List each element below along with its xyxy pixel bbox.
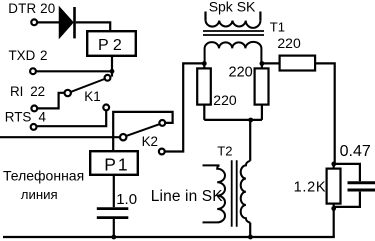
K1 lower contact bbox=[103, 105, 109, 111]
resistor R1 220 top lead bbox=[203, 64, 205, 69]
svg-text:линия: линия bbox=[21, 187, 58, 202]
svg-text:DTR 20: DTR 20 bbox=[8, 1, 55, 16]
wire capacitor C2 bottom to R4 bottom bbox=[334, 192, 360, 207]
K2 switch arm bbox=[126, 124, 159, 136]
svg-text:220: 220 bbox=[213, 92, 237, 108]
transformer T2 left winding bbox=[203, 165, 226, 222]
capacitor C2 0.47 top plate bbox=[348, 181, 375, 184]
capacitor C1 1.0 top plate bbox=[97, 207, 129, 210]
relay coil P2 box bbox=[87, 31, 136, 56]
svg-text:K1: K1 bbox=[84, 89, 100, 104]
wire P2 bottom lead bbox=[111, 56, 113, 71]
relay coil P1 box bbox=[90, 151, 138, 175]
transformer T1 upper winding lead left bbox=[204, 12, 206, 21]
terminal TXD 2 bbox=[30, 68, 36, 74]
wire phone line to K2 pivot bbox=[0, 136, 120, 138]
resistor R2 220 body bbox=[255, 68, 269, 104]
svg-text:1.0: 1.0 bbox=[116, 191, 137, 208]
svg-text:22: 22 bbox=[30, 84, 45, 99]
terminal DTR 20 bbox=[31, 19, 37, 25]
wire R4 bottom to ground rail bbox=[333, 208, 335, 237]
diode VD1 cathode bar bbox=[73, 7, 76, 38]
transformer T1 core line 1 bbox=[203, 30, 264, 32]
svg-text:P 2: P 2 bbox=[98, 37, 122, 54]
terminal RTS 4 bbox=[31, 124, 37, 130]
wire TXD to junction bbox=[36, 70, 112, 72]
transformer T1 upper winding bbox=[206, 21, 261, 28]
svg-text:RI: RI bbox=[10, 84, 23, 99]
junction node T1 left / R1 bbox=[202, 61, 207, 66]
wire C1 to bottom rail bbox=[113, 219, 115, 237]
wire diode to P2 top bbox=[76, 22, 111, 31]
svg-text:220: 220 bbox=[229, 65, 253, 81]
junction node TXD/P2 bbox=[110, 69, 115, 74]
K2 pivot contact bbox=[120, 134, 126, 140]
junction node R4 bottom bbox=[331, 206, 336, 211]
wire R3 to right riser bbox=[315, 63, 335, 163]
svg-text:0.47: 0.47 bbox=[340, 143, 371, 160]
junction node rail / T2 bbox=[248, 118, 253, 123]
transformer T1 core line 2 bbox=[203, 34, 264, 36]
resistor R4 1.2K body bbox=[327, 169, 341, 204]
K2 upper contact bbox=[159, 120, 165, 126]
svg-text:Line in SK: Line in SK bbox=[151, 188, 223, 205]
wire P1 bottom lead bbox=[113, 175, 115, 207]
svg-text:2: 2 bbox=[40, 48, 47, 63]
diode VD1 anode triangle bbox=[60, 8, 73, 38]
svg-text:220: 220 bbox=[277, 35, 301, 51]
terminal RI 22 bbox=[31, 106, 37, 112]
wire T2 right winding to bottom rail bbox=[249, 223, 251, 237]
transformer T2 core line 2 bbox=[236, 160, 238, 227]
capacitor C1 1.0 bottom plate bbox=[97, 216, 129, 219]
resistor R4 1.2K bottom lead bbox=[333, 204, 335, 209]
wire to capacitor C2 top bbox=[334, 164, 360, 181]
wire R2 junction to R3 bbox=[262, 62, 280, 64]
capacitor C2 0.47 bottom plate bbox=[348, 189, 375, 192]
K2 lower contact bbox=[159, 149, 165, 155]
resistor R3 220 body bbox=[280, 56, 316, 71]
resistor R2 220 top lead bbox=[261, 64, 263, 69]
K1 pivot contact bbox=[65, 90, 71, 96]
wire bottom phone line rail bbox=[3, 236, 335, 238]
transformer T1 upper winding lead right bbox=[259, 12, 261, 21]
svg-text:RTS: RTS bbox=[5, 110, 32, 125]
wire K2 lower contact to audio riser bbox=[165, 63, 205, 151]
wire DTR to diode bbox=[37, 21, 59, 23]
svg-text:1.2K: 1.2K bbox=[294, 179, 327, 195]
svg-text:T1: T1 bbox=[270, 20, 285, 35]
resistor R1 220 bottom lead bbox=[203, 105, 205, 120]
wire rail to T2 right winding bbox=[249, 120, 251, 161]
svg-text:TXD: TXD bbox=[9, 48, 36, 63]
svg-text:Spk SK: Spk SK bbox=[209, 0, 256, 15]
svg-text:Телефонная: Телефонная bbox=[3, 167, 84, 183]
resistor R4 1.2K top lead bbox=[333, 164, 335, 169]
transformer T2 right winding bbox=[241, 161, 251, 223]
transformer T2 core line 1 bbox=[231, 160, 233, 227]
svg-text:4: 4 bbox=[39, 110, 47, 125]
wire K1 lower contact to RTS bbox=[37, 110, 106, 126]
junction node C1/bottom rail bbox=[111, 235, 116, 240]
wire P1 top lead to K2 upper contact bbox=[113, 112, 172, 151]
junction node T2 / bottom rail bbox=[248, 235, 253, 240]
K1 upper contact bbox=[105, 75, 111, 81]
K1 switch arm bbox=[71, 79, 105, 92]
resistor R2 220 bottom lead bbox=[261, 105, 263, 120]
wire junction to K1 upper contact bbox=[111, 71, 113, 76]
svg-text:P1: P1 bbox=[104, 154, 129, 174]
transformer T1 lower winding bbox=[205, 42, 262, 64]
wire bottom rail of R1 R2 bbox=[204, 119, 262, 121]
junction node riser / C2 bbox=[331, 162, 336, 167]
svg-text:K2: K2 bbox=[142, 134, 158, 149]
junction node T1 right / R2 bbox=[260, 61, 265, 66]
wire K1 pivot to RI bbox=[38, 93, 65, 109]
svg-text:T2: T2 bbox=[217, 144, 232, 159]
resistor R1 220 body bbox=[197, 68, 211, 104]
